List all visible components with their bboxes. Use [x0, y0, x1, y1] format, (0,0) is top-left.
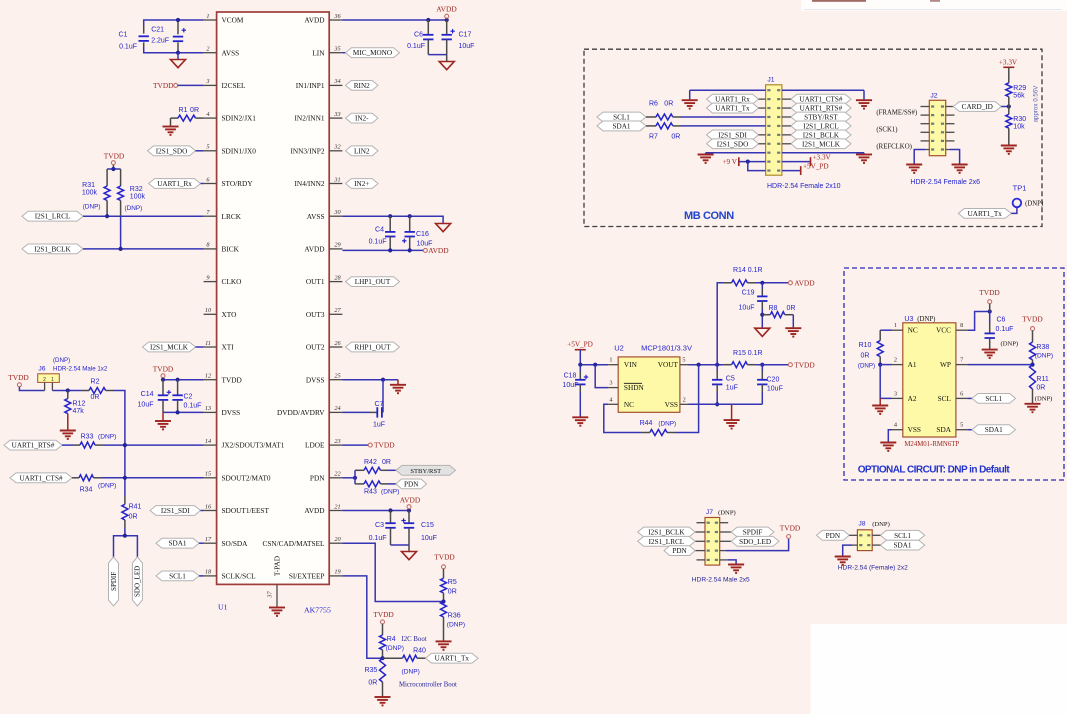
net flag UART1_Tx at J1: [707, 103, 759, 113]
svg-text:36: 36: [333, 13, 341, 20]
U1 pin 24 DVDD/AVDRV: [277, 405, 342, 417]
ground at U1 T-PAD: [269, 608, 285, 616]
net flag SDA1: [156, 538, 199, 548]
svg-text:VSS: VSS: [665, 400, 678, 409]
svg-text:I2S1_BCLK: I2S1_BCLK: [803, 131, 840, 139]
net flag SDA1 at U3: [967, 429, 972, 431]
svg-text:1uF: 1uF: [726, 385, 738, 392]
ground J2 right: [952, 165, 968, 173]
resistor R14 0.1R: [732, 280, 748, 286]
resistor R11 0R: [1030, 365, 1036, 389]
svg-text:OUT1: OUT1: [306, 277, 325, 286]
svg-text:100k: 100k: [82, 190, 98, 197]
net flag SPDIF vertical: [109, 557, 119, 606]
svg-text:C4: C4: [375, 227, 384, 234]
svg-text:SDOUT1/EEST: SDOUT1/EEST: [222, 506, 270, 515]
svg-text:TVDD: TVDD: [979, 288, 1000, 297]
net flag I2S1_LRCL: [22, 211, 83, 221]
svg-text:15: 15: [205, 471, 211, 478]
capacitor C6 0.1uF (DNP): [989, 312, 991, 323]
svg-text:0R: 0R: [664, 101, 673, 108]
ground at R35: [375, 697, 391, 705]
svg-text:TVDD: TVDD: [104, 152, 125, 161]
ground at A2: [879, 398, 881, 405]
U1 pin 22 PDN: [310, 471, 343, 483]
svg-text:SO/SDA: SO/SDA: [222, 539, 249, 548]
svg-text:RHP1_OUT: RHP1_OUT: [355, 344, 392, 352]
svg-text:(DNP): (DNP): [402, 669, 420, 676]
U1 pin 9 CLKO: [204, 274, 242, 286]
power port TVDD at pin 12: [153, 365, 174, 374]
net flag I2S1_LRCL at J7: [638, 536, 695, 546]
U2 part number MCP1801/3.3V: [641, 344, 692, 353]
svg-text:I2CSEL: I2CSEL: [222, 81, 246, 90]
wire DVDD pin24: [342, 411, 370, 413]
svg-text:SCL1: SCL1: [169, 572, 186, 580]
svg-text:0R: 0R: [190, 107, 199, 114]
wire J7 row4 to TVDD: [726, 539, 789, 551]
svg-text:(DNP): (DNP): [447, 622, 465, 629]
svg-text:SDIN1/JX0: SDIN1/JX0: [222, 146, 257, 155]
ground at U3 VSS: [888, 430, 891, 443]
power port +3.3V at J1 row9 right: [782, 161, 811, 163]
wire J1 row8 right to ground: [782, 152, 864, 154]
net flag STBY/RST at J1: [791, 112, 851, 122]
svg-text:JX2/SDOUT3/MAT1: JX2/SDOUT3/MAT1: [222, 441, 285, 450]
svg-text:C6: C6: [997, 317, 1006, 324]
U1 pin 28 OUT1: [306, 274, 343, 286]
svg-text:OUT2: OUT2: [306, 343, 325, 352]
wire VIN rail: [580, 364, 608, 366]
svg-text:0.1uF: 0.1uF: [369, 239, 387, 246]
net flag CARD_ID: [946, 106, 954, 108]
svg-text:25: 25: [334, 373, 340, 380]
resistor R42 0R: [354, 470, 356, 478]
resistor R29 56k: [1008, 67, 1010, 83]
svg-text:100k: 100k: [130, 194, 146, 201]
svg-text:0.1uF: 0.1uF: [369, 535, 387, 542]
ground at J7: [728, 565, 744, 573]
capacitor C1: [139, 36, 149, 41]
wire VOUT TVDD rail: [689, 364, 724, 366]
svg-text:PDN: PDN: [404, 480, 419, 488]
svg-text:IN4/INN2: IN4/INN2: [295, 179, 325, 188]
svg-text:MB CONN: MB CONN: [684, 210, 734, 222]
svg-text:U2: U2: [614, 344, 624, 353]
wire SI pin19 to boot node: [342, 576, 382, 658]
svg-text:10: 10: [205, 307, 212, 314]
svg-text:(DNP): (DNP): [718, 510, 736, 517]
svg-text:R30: R30: [1013, 116, 1026, 123]
svg-text:A2: A2: [908, 394, 917, 403]
resistor R36 (DNP): [441, 602, 447, 617]
svg-text:8: 8: [960, 322, 963, 329]
svg-text:AVDD: AVDD: [304, 506, 324, 515]
svg-text:M24M01-RMN6TP: M24M01-RMN6TP: [904, 441, 959, 448]
test point TP1: [1013, 184, 1027, 193]
svg-text:AVSS: AVSS: [307, 212, 325, 221]
svg-text:R40: R40: [413, 648, 426, 655]
svg-text:R15 0.1R: R15 0.1R: [733, 350, 763, 357]
svg-text:5: 5: [960, 422, 963, 429]
svg-text:BICK: BICK: [222, 245, 240, 254]
wire CARD_ID to divider: [1001, 106, 1009, 108]
ground triangle below C19: [755, 328, 770, 336]
svg-text:C19: C19: [742, 290, 755, 297]
wire AVDD branch riser: [717, 283, 723, 365]
svg-text:SDO_LED: SDO_LED: [739, 538, 771, 546]
wire R10 to A1 A2: [880, 364, 891, 366]
svg-text:34: 34: [333, 78, 340, 85]
svg-text:VOUT: VOUT: [658, 360, 679, 369]
wire VCC to TVDD: [967, 312, 990, 331]
svg-text:VSS: VSS: [908, 425, 921, 434]
svg-text:17: 17: [205, 536, 212, 543]
svg-text:47k: 47k: [73, 408, 85, 415]
svg-text:13: 13: [205, 405, 211, 412]
svg-text:1: 1: [894, 322, 897, 329]
svg-text:(FRAME/SS#): (FRAME/SS#): [876, 110, 917, 117]
svg-text:10uF: 10uF: [421, 535, 437, 542]
net flag PDN: [396, 479, 427, 489]
net flag SCL1 at U3: [967, 397, 972, 399]
svg-text:+3.3V: +3.3V: [813, 154, 832, 162]
net flag UART1_CTS# at J1: [791, 94, 851, 104]
svg-text:OPTIONAL CIRCUIT: DNP in Defau: OPTIONAL CIRCUIT: DNP in Default: [858, 465, 1011, 476]
svg-text:UART1_Tx: UART1_Tx: [968, 210, 1003, 218]
U1 pin 37 T-PAD: [267, 556, 282, 608]
svg-text:R41: R41: [129, 504, 142, 511]
svg-text:2: 2: [43, 377, 46, 383]
label HDR-2.54 (Female) 2x2: [838, 565, 908, 572]
svg-text:DVSS: DVSS: [306, 375, 325, 384]
U1 pin 21 AVDD: [304, 503, 342, 515]
wire J7 row5 to ground: [728, 560, 736, 565]
svg-text:J7: J7: [706, 509, 713, 516]
dashed box MB CONN: [584, 49, 1042, 226]
wire WP: [967, 364, 1032, 366]
svg-text:(DNP): (DNP): [1025, 200, 1043, 207]
svg-text:UART1_Tx: UART1_Tx: [715, 105, 750, 113]
svg-text:1: 1: [609, 357, 612, 364]
svg-text:PDN: PDN: [672, 547, 687, 555]
svg-text:DVSS: DVSS: [222, 408, 241, 417]
svg-text:I2S1_SDO: I2S1_SDO: [717, 140, 749, 148]
svg-text:AVDD: AVDD: [794, 278, 815, 287]
U1 pin 32 INN3/INP2: [290, 144, 342, 156]
net flag I2S1_BCLK: [22, 244, 83, 254]
svg-text:CSN/CAD/MATSEL: CSN/CAD/MATSEL: [262, 539, 325, 548]
svg-text:10uF: 10uF: [563, 382, 579, 389]
capacitor C17 10uF: [446, 20, 448, 35]
svg-text:R32: R32: [130, 186, 143, 193]
wire VSS rail: [689, 403, 763, 405]
net flag I2S1_SDI: [150, 506, 201, 516]
svg-text:SCL1: SCL1: [985, 395, 1002, 403]
capacitor C6 0.1uF: [427, 20, 429, 35]
svg-text:R8: R8: [769, 305, 778, 312]
wire C21 branch: [177, 20, 179, 34]
U1 pin 6 STO/RDY: [204, 176, 254, 188]
label approx 0.56V: [1033, 85, 1040, 123]
J2 left stubs: [921, 106, 930, 108]
net flag I2S1_BCLK at J7: [638, 527, 695, 537]
svg-text:J2: J2: [930, 93, 937, 100]
U1 pin 17 SO/SDA: [204, 536, 249, 548]
ground at R30: [1001, 146, 1017, 154]
U1 pin 2 AVSS: [204, 46, 240, 58]
svg-text:I2S1_SDO: I2S1_SDO: [156, 147, 188, 155]
resistor R34 (DNP): [72, 477, 79, 479]
wire DVSS pin13: [163, 411, 204, 413]
ground at R1: [170, 118, 172, 126]
svg-text:SDA1: SDA1: [613, 122, 631, 130]
svg-text:R29: R29: [1013, 85, 1026, 92]
svg-text:6: 6: [960, 390, 963, 397]
wire J1 row1 left to ground: [690, 89, 766, 91]
svg-text:C21: C21: [151, 27, 164, 34]
svg-text:+5V_PD: +5V_PD: [803, 163, 829, 171]
net flag I2S1_BCLK at J1: [791, 130, 851, 140]
U1 part number AK7755: [304, 606, 331, 615]
net flag SCL1: [156, 571, 199, 581]
svg-text:IN2+: IN2+: [354, 180, 369, 188]
U1 pin 33 IN2/INN1: [295, 111, 343, 123]
connector J7 HDR-2.54 Male 2x5 (DNP): [705, 518, 720, 566]
svg-text:+9 V: +9 V: [722, 158, 737, 166]
ground at C14: [162, 412, 164, 421]
svg-text:C17: C17: [459, 32, 472, 39]
svg-text:TVDD: TVDD: [373, 610, 394, 619]
svg-text:(DNP): (DNP): [386, 645, 404, 652]
svg-text:C20: C20: [767, 377, 780, 384]
capacitor C21: [173, 37, 183, 42]
op-amp U1 AK7755 body: [217, 12, 330, 584]
svg-text:(REFCLKO): (REFCLKO): [876, 144, 912, 151]
U1 reference designator: [218, 603, 228, 612]
U1 pin 20 CSN/CAD/MATSEL: [262, 536, 342, 548]
wire J2 row6 left to ground: [925, 149, 929, 151]
svg-text:SI/EXTEEP: SI/EXTEEP: [289, 572, 325, 581]
svg-text:AVDD: AVDD: [304, 16, 324, 25]
svg-text:SCL1: SCL1: [894, 532, 911, 540]
svg-text:NC: NC: [908, 326, 918, 335]
net flag LIN2: [346, 146, 379, 156]
svg-text:HDR-2.54 Female 2x10: HDR-2.54 Female 2x10: [767, 183, 841, 190]
svg-text:R35: R35: [364, 667, 377, 674]
J7 pin marks: [707, 522, 718, 561]
svg-text:R43: R43: [364, 489, 377, 496]
svg-text:1: 1: [51, 377, 54, 383]
svg-text:(SCK1): (SCK1): [876, 127, 897, 134]
capacitor C19 10uF: [761, 283, 763, 289]
ground below C15: [408, 545, 410, 552]
U1 pin 5 SDIN1/JX0: [204, 144, 257, 156]
ground J1 row1 left: [682, 100, 698, 108]
capacitor C15 10uF: [408, 511, 410, 524]
svg-text:5: 5: [682, 357, 685, 364]
resistor R41 0R: [122, 504, 128, 520]
net flag I2S1_MCLK at J1: [791, 139, 851, 149]
svg-text:A1: A1: [908, 360, 917, 369]
svg-text:27: 27: [334, 307, 341, 314]
svg-text:R14 0.1R: R14 0.1R: [733, 267, 763, 274]
capacitor C2 0.1uF: [177, 380, 179, 396]
svg-text:(DNP): (DNP): [917, 316, 935, 323]
svg-text:0R: 0R: [787, 305, 796, 312]
svg-text:HDR-2.54 (Female) 2x2: HDR-2.54 (Female) 2x2: [838, 565, 908, 572]
svg-text:21: 21: [334, 503, 340, 510]
svg-text:(DNP): (DNP): [83, 204, 101, 211]
svg-text:XTO: XTO: [222, 310, 237, 319]
U1 pin 16 SDOUT1/EEST: [204, 503, 270, 515]
svg-text:SDO_LED: SDO_LED: [134, 566, 142, 597]
wire R31 R32 tops: [107, 168, 121, 170]
svg-text:U1: U1: [218, 603, 228, 612]
capacitor C20 10uF: [761, 365, 763, 371]
power port AVDD at pin21: [400, 496, 421, 505]
wire J6 pin1 to R2: [52, 390, 81, 392]
U2 reference designator: [614, 344, 624, 353]
wire R41 to SPDIF SDO_LED flags: [124, 520, 126, 528]
label HDR-2.54 Male 2x5: [692, 577, 750, 584]
svg-text:0R: 0R: [671, 134, 680, 141]
wire DVSS pin25: [342, 379, 398, 381]
svg-text:UART1_RTS#: UART1_RTS#: [800, 105, 843, 113]
svg-text:I2S1_SDI: I2S1_SDI: [161, 507, 190, 515]
svg-text:HDR-2.54 Female 2x6: HDR-2.54 Female 2x6: [910, 179, 980, 186]
voltage regulator U2 MCP1801/3.3V: [618, 357, 680, 412]
resistor R6 0R: [646, 116, 656, 118]
U1 pin 10 XTO: [204, 307, 237, 319]
scan artifact: white block bottom right: [811, 624, 1067, 714]
capacitor C4 0.1uF: [389, 216, 391, 232]
svg-text:R6: R6: [649, 101, 658, 108]
ground at R11: [1025, 404, 1041, 412]
wire TVDD rail pin12: [163, 379, 204, 381]
power port +5V_PD at U2: [567, 341, 593, 349]
U1 pin 18 SCLK/SCL: [204, 569, 257, 581]
net flag UART1_Rx: [149, 179, 201, 189]
svg-text:31: 31: [333, 176, 340, 183]
svg-text:J6: J6: [38, 366, 45, 373]
eeprom U3 M24M01 body: [903, 323, 956, 437]
power port TVDD above R5: [434, 553, 455, 562]
svg-text:R12: R12: [73, 401, 86, 408]
svg-text:14: 14: [205, 438, 211, 445]
capacitor C7 1uF: [377, 407, 382, 417]
resistor R15 0.1R: [732, 362, 748, 368]
U1 pin 36 AVDD: [304, 13, 342, 25]
svg-text:UART1_Rx: UART1_Rx: [157, 180, 192, 188]
svg-text:R38: R38: [1036, 344, 1049, 351]
resistor R7 0R: [646, 125, 656, 127]
net flag STBY/RST: [396, 465, 456, 475]
svg-text:UART1_Rx: UART1_Rx: [715, 96, 750, 104]
U1 pin 34 IN1/INP1: [296, 78, 343, 90]
svg-text:TVDD: TVDD: [374, 441, 395, 450]
svg-text:C5: C5: [726, 376, 735, 383]
U1 pin 27 OUT3: [306, 307, 343, 319]
svg-text:4: 4: [206, 111, 209, 118]
svg-text:AVSS: AVSS: [222, 48, 240, 57]
net flag UART1_Tx: [426, 653, 478, 663]
U1 pin 4 SDIN2/JX1: [204, 111, 257, 123]
svg-text:(DNP): (DNP): [98, 434, 116, 441]
svg-text:Microcontroller Boot: Microcontroller Boot: [399, 682, 457, 689]
wire VCOM to caps: [144, 20, 204, 26]
svg-text:30: 30: [333, 209, 341, 216]
U1 pin 31 IN4/INN2: [295, 176, 343, 188]
svg-text:35: 35: [333, 46, 340, 53]
svg-text:R34: R34: [80, 487, 93, 494]
J6 pin stubs: [44, 382, 46, 390]
svg-text:CARD_ID: CARD_ID: [962, 103, 993, 111]
svg-text:MCP1801/3.3V: MCP1801/3.3V: [641, 344, 692, 353]
ground at R36: [436, 641, 452, 649]
svg-text:SHDN: SHDN: [624, 383, 645, 392]
ground at U2 VSS: [731, 404, 733, 420]
svg-text:UART1_CTS#: UART1_CTS#: [799, 96, 843, 104]
net flag IN2+: [346, 179, 379, 189]
svg-text:10uF: 10uF: [767, 386, 783, 393]
svg-text:22: 22: [334, 471, 341, 478]
svg-text:SDIN2/JX1: SDIN2/JX1: [222, 114, 257, 123]
svg-text:PDN: PDN: [826, 532, 841, 540]
wire J1 row1 right to ground: [782, 89, 864, 91]
net flag UART1_Rx at J1: [707, 94, 759, 104]
net flag MIC_MONO: [342, 52, 345, 54]
U2 pin stubs: [608, 364, 618, 366]
svg-text:U3: U3: [904, 316, 913, 323]
resistor R30 10k: [1008, 107, 1010, 115]
net flag UART1_RTS# at J1: [791, 103, 851, 113]
connector J1 HDR-2.54 Female 2x10: [766, 85, 782, 175]
ground below C17: [446, 55, 448, 62]
net flag SDA1 at J8: [880, 540, 924, 550]
svg-text:0.1uF: 0.1uF: [119, 44, 137, 51]
power port AVDD: [436, 5, 457, 14]
svg-text:TVDD: TVDD: [153, 81, 174, 90]
wire J2 row6 right to ground: [946, 149, 950, 151]
net flag SCL1 at J1: [597, 112, 646, 122]
net flag LHP1_OUT: [346, 277, 400, 287]
resistor R2 0R: [89, 388, 106, 394]
net flag SDA1 at J1: [597, 121, 646, 131]
resistor R43 (DNP): [354, 478, 356, 484]
svg-text:I2S1_LRCL: I2S1_LRCL: [649, 538, 685, 546]
svg-text:SCL: SCL: [938, 394, 952, 403]
svg-text:R1: R1: [179, 107, 188, 114]
wire caps bottom pin21: [391, 544, 410, 546]
svg-text:SDA1: SDA1: [894, 542, 912, 550]
power port +9V at J1 row9: [722, 158, 737, 166]
svg-text:18: 18: [205, 569, 212, 576]
svg-text:TVDD: TVDD: [1022, 315, 1043, 324]
svg-text:C6: C6: [414, 32, 423, 39]
ground at pin25: [397, 380, 399, 385]
svg-text:IN1/INP1: IN1/INP1: [296, 81, 325, 90]
junction: [176, 18, 180, 22]
U1 pin 8 BICK: [204, 242, 240, 254]
net flag UART1_RTS#: [4, 440, 62, 450]
ground J1 row8 left: [698, 155, 714, 163]
power port TVDD at J7: [787, 535, 791, 539]
svg-text:C3: C3: [375, 522, 384, 529]
label (FRAME/SS#): [876, 110, 917, 117]
wire J1 row8 left to ground: [706, 152, 766, 154]
wire +9V to row10: [748, 162, 766, 171]
